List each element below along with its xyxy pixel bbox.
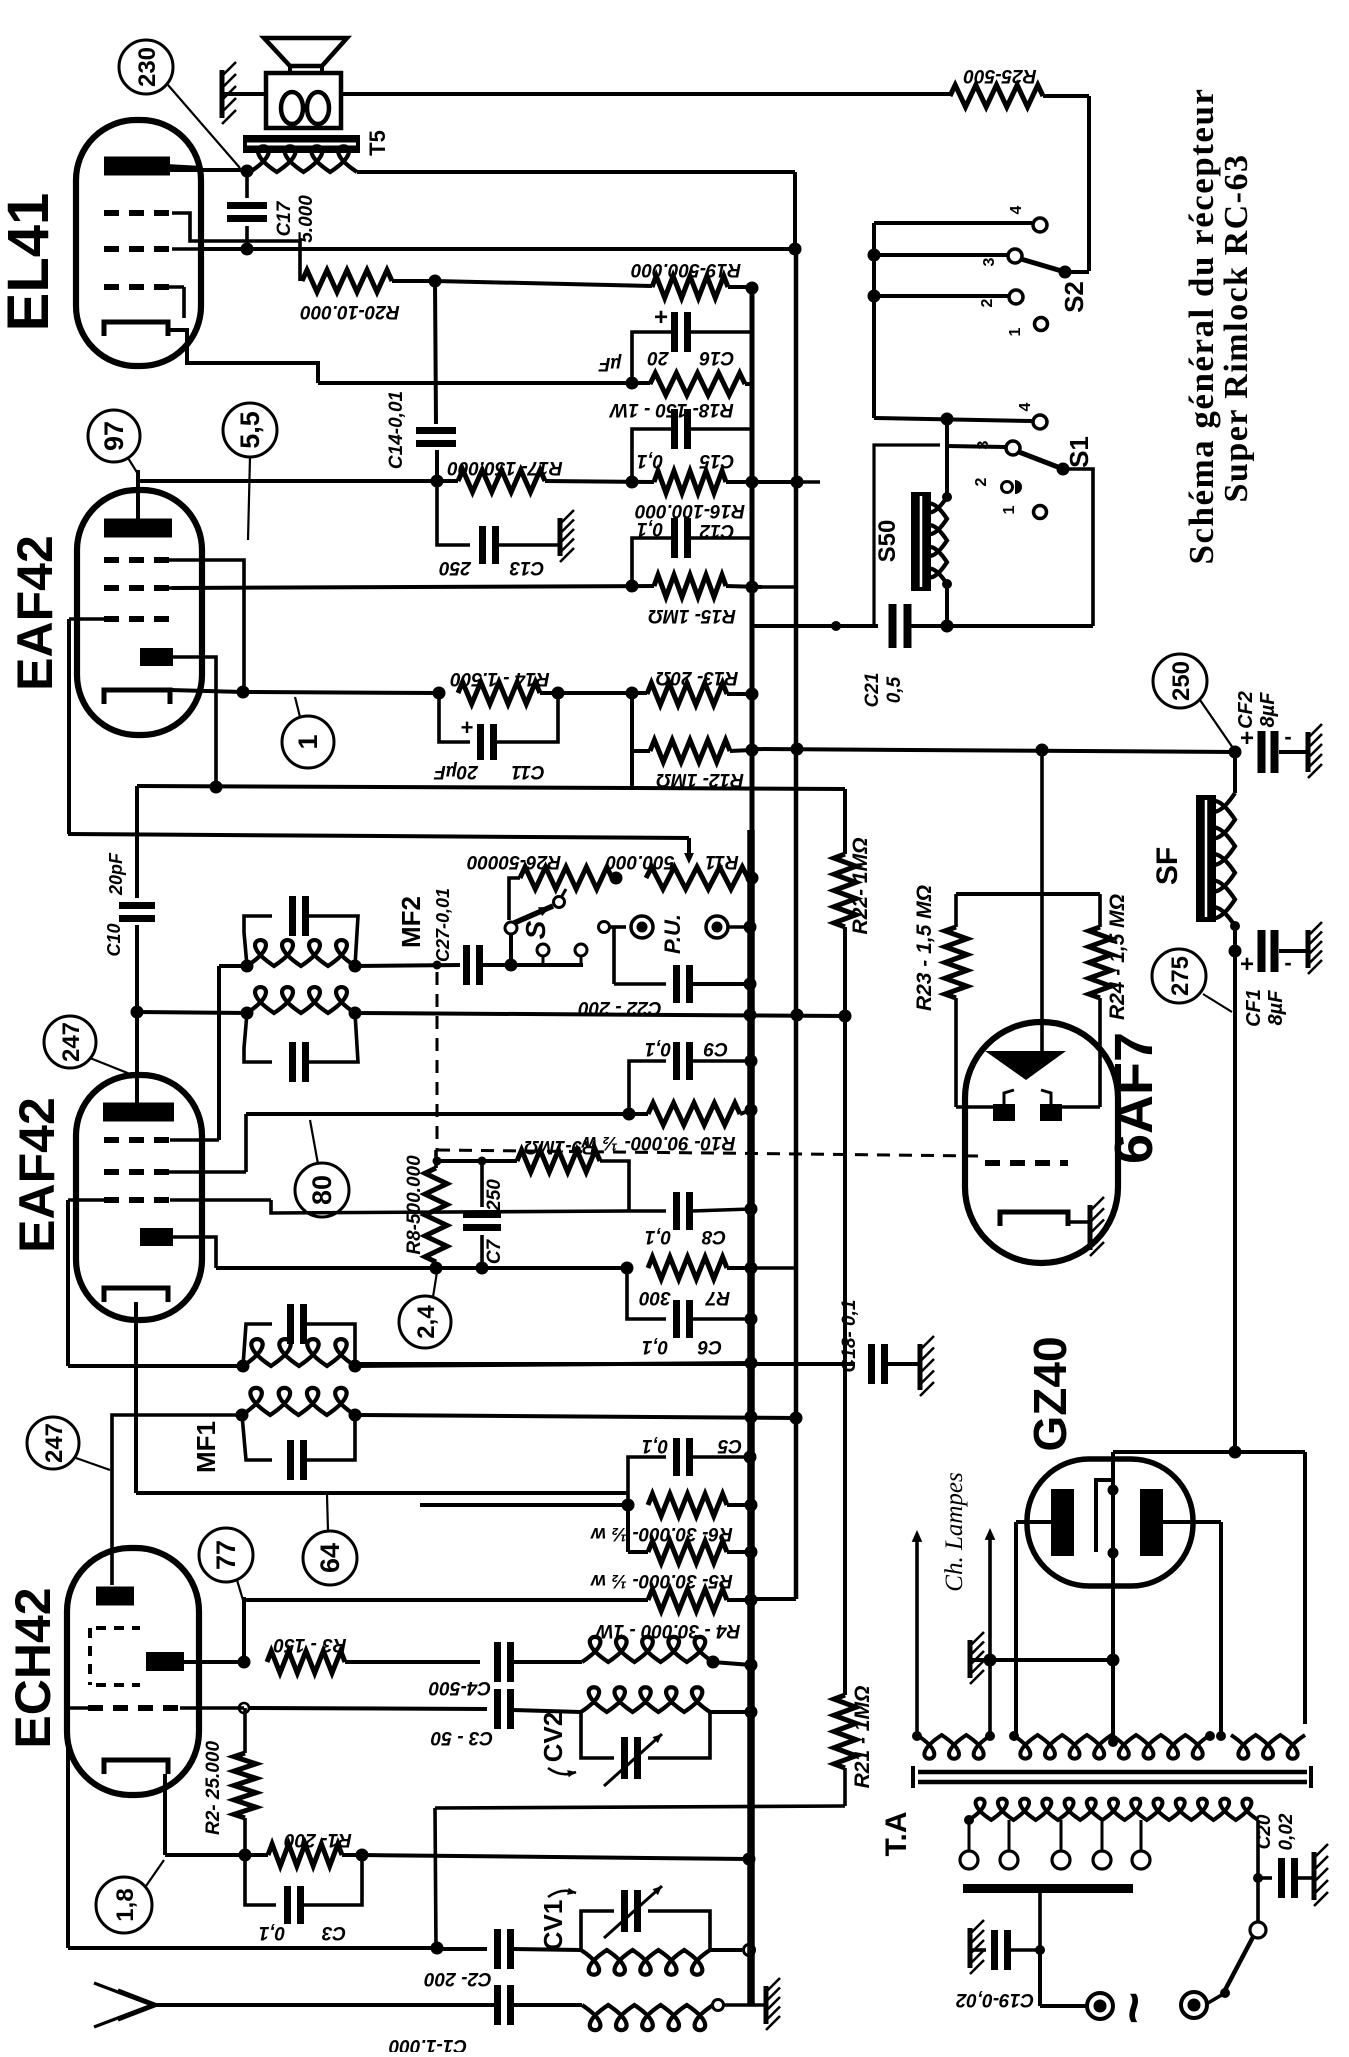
svg-text:6AF7: 6AF7: [1104, 1032, 1164, 1164]
node S1 c4 tee: [941, 413, 954, 426]
node R6 left: [622, 1499, 635, 1512]
resistor R15-1M: [654, 575, 726, 597]
svg-text:EAF42: EAF42: [7, 535, 63, 691]
node diode join: [210, 781, 223, 794]
node row1014 railB: [791, 1009, 804, 1022]
wire S1 pivot leg: [1063, 469, 1093, 626]
node C9 rail: [745, 1055, 758, 1068]
contact stub 1: [537, 944, 549, 956]
CV2 tuning arrow: [548, 1768, 576, 1774]
wire primary right: [1256, 1820, 1260, 1878]
wire R26 left bend: [509, 878, 520, 920]
T.A secondary winding 3: [1231, 1735, 1305, 1759]
node C22 rail: [744, 978, 757, 991]
contact stub 2: [575, 944, 587, 956]
node C8 rail: [745, 1203, 758, 1216]
node R18 left: [626, 377, 639, 390]
capacitor C10 20pF: [119, 902, 155, 909]
tube EAF42-1 body: [77, 490, 202, 735]
circled 80: [295, 1163, 349, 1217]
EAF42-1 cathode: [104, 690, 170, 704]
svg-text:C14-0,01: C14-0,01: [386, 391, 407, 469]
coil SF: [1210, 793, 1236, 926]
capacitor C3b branch: [245, 1855, 276, 1905]
tube ECH42 body: [67, 1548, 199, 1795]
wire anode HT row: [1113, 1450, 1305, 1454]
wire S2 pivot: [1065, 270, 1089, 274]
resistor R24-1,5M: [1098, 894, 1102, 927]
svg-text:3: 3: [975, 440, 992, 449]
svg-text:8µF: 8µF: [1257, 692, 1279, 728]
node R2 bottom: [239, 1849, 252, 1862]
MF2 lower coil: [247, 987, 355, 1013]
primary taps: [968, 1820, 971, 1851]
circled 5,5: [223, 403, 277, 457]
antenna coil L1: [582, 2005, 713, 2030]
EAF42-2 cathode: [104, 1288, 168, 1302]
6AF7 deflector left: [956, 1105, 995, 1109]
wire row 1014: [137, 1012, 247, 1013]
svg-text:C5: C5: [717, 1435, 742, 1456]
ground C13: [558, 518, 563, 556]
resistor R8-500.000: [425, 1168, 447, 1262]
node CF1 junction: [1229, 945, 1242, 958]
EL41 grid3 dashes: [104, 284, 172, 290]
wire C1 to L1: [513, 2003, 582, 2007]
ground (speaker frame): [220, 70, 225, 118]
svg-text:MF1: MF1: [191, 1421, 221, 1473]
svg-text:CF2: CF2: [1235, 691, 1257, 729]
switch S contact A: [554, 897, 565, 908]
svg-text:300: 300: [639, 1287, 671, 1308]
wire R5 rail: [727, 1550, 751, 1554]
capacitor C27-0,01: [463, 945, 470, 985]
svg-text:Super Rimlock RC-63: Super Rimlock RC-63: [1218, 154, 1255, 503]
wire R6 rail: [727, 1503, 751, 1507]
node MF1 up-right: [349, 1360, 362, 1373]
node x436 C2row: [431, 1942, 444, 1955]
ECH42 triode box dashes: [88, 1628, 92, 1685]
svg-text:C17: C17: [274, 200, 295, 236]
GZ40 anode right: [1140, 1489, 1163, 1556]
MF2 upper tank: [244, 916, 272, 966]
resistor R3-150: [267, 1651, 345, 1673]
wire row 1161: [437, 1159, 517, 1163]
capacitor C4-500: [494, 1642, 501, 1682]
wire CV1 to rail: [710, 1948, 742, 1952]
wire C13 branch: [437, 481, 470, 545]
resistor R12-1M: [650, 740, 730, 762]
ground 6AF7: [1088, 1205, 1093, 1250]
svg-text:+: +: [461, 715, 474, 740]
svg-text:C4-500: C4-500: [428, 1677, 491, 1698]
svg-text:C13: C13: [509, 557, 544, 578]
capacitor C8 branch: [628, 1209, 666, 1213]
wire row 966 left: [219, 964, 247, 968]
svg-text:T5: T5: [365, 130, 390, 156]
wire R3 to C4: [345, 1660, 480, 1664]
wire SF to CF1: [1233, 926, 1237, 951]
wire S50 to C21 row: [945, 584, 949, 626]
wire C18 ground: [888, 1362, 918, 1366]
leader 1,8: [146, 1860, 164, 1886]
wire row 1505: [420, 1503, 628, 1507]
wire R17-R16 row: [545, 481, 654, 482]
svg-text:C2- 200: C2- 200: [424, 1968, 492, 1989]
wire pot wiper: [687, 838, 691, 858]
node row1014 x845: [839, 1010, 852, 1023]
svg-text:-: -: [1284, 950, 1291, 975]
svg-text:SF: SF: [1151, 847, 1184, 885]
resistor R5-30.000: [648, 1541, 727, 1563]
wire R1 to rail: [342, 1853, 362, 1857]
svg-text:C10: C10: [104, 923, 124, 956]
MF2 upper coil: [247, 940, 355, 966]
node row749 rail B: [791, 743, 804, 756]
circled 275: [1152, 949, 1206, 1003]
svg-text:R13- 20Ω: R13- 20Ω: [656, 667, 739, 688]
stub row1268 railB: [751, 1266, 794, 1270]
svg-text:R7: R7: [704, 1287, 730, 1308]
svg-text:R3 - 150: R3 - 150: [273, 1634, 346, 1655]
leader 64: [327, 1495, 328, 1531]
EAF42-1 anode: [104, 519, 172, 538]
wire C22 to rail: [692, 982, 750, 986]
capacitor C16 branch: [632, 332, 672, 383]
node R14 left: [433, 687, 446, 700]
svg-text:P.U.: P.U.: [660, 914, 685, 954]
node MF1 up-left: [237, 1360, 250, 1373]
CV1 variable cap: [621, 1890, 628, 1932]
circled 64: [303, 1531, 357, 1585]
6AF7 target triangle: [985, 1051, 1066, 1080]
svg-text:MF2: MF2: [396, 896, 426, 948]
node MF1 low-right: [349, 1409, 362, 1422]
leader 2,4: [433, 1272, 437, 1297]
rail A lower: [747, 830, 755, 2006]
ECH42 grid blob: [146, 1652, 184, 1671]
node fil bottom: [1108, 1548, 1119, 1559]
capacitor C22-200: [673, 965, 680, 1003]
S2 contact1: [1035, 318, 1048, 331]
EAF42-1 grid2 dashes: [104, 585, 172, 591]
resistor R6-30.000: [648, 1494, 727, 1516]
svg-text:C9: C9: [703, 1038, 728, 1059]
wire R18 row: [318, 381, 650, 385]
transformer T5 primary coil: [250, 146, 357, 172]
node R16 rail A: [746, 476, 759, 489]
svg-text:0,1: 0,1: [645, 1226, 671, 1247]
capacitor C2-200: [494, 1929, 501, 1969]
svg-text:GZ40: GZ40: [1024, 1336, 1076, 1451]
leader 247 no2: [76, 1458, 110, 1470]
antenna: [149, 2003, 497, 2007]
switch secteur: [1256, 1878, 1260, 1922]
wire R10 rail: [740, 1110, 751, 1114]
leader 97: [128, 458, 138, 474]
wire x244 up: [242, 1597, 246, 1662]
resistor R17-150.000: [458, 470, 545, 492]
T.A secondary winding 2: [1013, 1735, 1210, 1759]
EL41 cathode: [104, 322, 168, 336]
svg-text:T.A: T.A: [880, 1812, 913, 1857]
circled 230: [119, 40, 173, 94]
svg-text:97: 97: [99, 421, 129, 451]
wire S2 contact4: [874, 221, 1032, 225]
svg-text:3: 3: [981, 257, 998, 266]
wire R7 rail: [727, 1266, 751, 1270]
node S50 bottom: [942, 579, 952, 589]
wire HT right leg: [1303, 1452, 1307, 1724]
node C20 tee: [1253, 1873, 1263, 1883]
ECH42 anode: [96, 1587, 134, 1606]
svg-text:R19-500.000: R19-500.000: [631, 259, 741, 280]
svg-text:C6: C6: [697, 1336, 722, 1357]
resistor R22-1M: [834, 854, 856, 927]
wire row 1493 cathode2: [136, 1491, 628, 1495]
node L3 rail: [745, 1659, 758, 1672]
GZ40 anode left: [1051, 1489, 1074, 1556]
jack PU1: [599, 922, 610, 933]
wire EAF42-1 anode row: [138, 479, 458, 483]
wire g3 left down: [66, 1200, 70, 1366]
wire row 1114: [246, 1112, 648, 1116]
capacitor C20-0,02: [1258, 1876, 1272, 1880]
capacitor C5 branch: [628, 1457, 666, 1505]
pin circle g1: [239, 1703, 249, 1713]
node S2 c2: [868, 290, 881, 303]
dashed AVC horizontal: [437, 1150, 980, 1156]
svg-text:Ch. Lampes: Ch. Lampes: [941, 1472, 968, 1591]
stub rails y587: [752, 585, 797, 589]
EAF42-1 diode plate: [140, 648, 173, 666]
wire x137 down: [135, 786, 139, 898]
node L3 right: [707, 1656, 720, 1669]
wire C4 to osc coil: [513, 1660, 582, 1664]
svg-text:20: 20: [647, 347, 670, 368]
svg-text:R20-10.000: R20-10.000: [300, 301, 400, 322]
node R16 left: [626, 476, 639, 489]
svg-text:S: S: [520, 920, 551, 939]
EAF42-1 grid3 dashes: [104, 616, 172, 622]
T.A secondary winding 1: [917, 1735, 991, 1759]
heater arrow 2: [988, 1534, 992, 1733]
node R6 rail: [745, 1499, 758, 1512]
resistor R21-1M: [834, 1695, 856, 1768]
wire speaker ground lead: [222, 92, 266, 96]
wire MF2 to C27: [355, 965, 460, 966]
svg-text:C16: C16: [699, 347, 734, 368]
node C21 left: [831, 621, 841, 631]
node S2 c3: [868, 249, 881, 262]
node PU2 rail: [744, 921, 757, 934]
svg-text:C20: C20: [1254, 1814, 1275, 1849]
ground heater: [968, 1640, 973, 1678]
S2 lever: [1021, 259, 1065, 272]
capacitor C19-0,02: [972, 1948, 986, 1952]
svg-text:R16-100.000: R16-100.000: [635, 500, 745, 521]
svg-text:4: 4: [1008, 205, 1025, 214]
capacitor C17: [245, 171, 249, 198]
node R19 rail: [746, 282, 759, 295]
node C5 rail: [744, 1451, 757, 1464]
svg-text:CF1: CF1: [1243, 989, 1265, 1027]
node MF2 low-right: [349, 1007, 362, 1020]
node C19 junction: [1035, 1945, 1045, 1955]
node CF2 junction: [1229, 746, 1242, 759]
wire rail B bottom corner: [751, 1597, 796, 1601]
wire row 1950: [437, 1947, 487, 1951]
svg-text:R9-1MΩ: R9-1MΩ: [524, 1136, 596, 1157]
svg-text:64: 64: [315, 1543, 345, 1573]
resistor R11-500.000: [646, 867, 748, 889]
svg-text:0,1: 0,1: [637, 518, 663, 539]
mains plug left: [1087, 1993, 1113, 2019]
resistor R4-30.000: [648, 1589, 727, 1611]
wire shield to C19: [1038, 1893, 1042, 1950]
6AF7 deflector right: [1062, 1105, 1100, 1109]
capacitor C3-50: [494, 1689, 501, 1729]
SF core: [1196, 795, 1216, 922]
capacitor C7: [480, 1161, 484, 1207]
ground C20: [1312, 1852, 1317, 1900]
svg-text:R15- 1MΩ: R15- 1MΩ: [648, 605, 736, 626]
ground C19: [968, 1928, 973, 1968]
nodes secondary: [912, 1731, 922, 1741]
wire S1 contact3: [947, 446, 1005, 447]
node SF bottom: [1230, 921, 1240, 931]
node R26-R11: [610, 872, 623, 885]
node C27 tee: [433, 961, 442, 970]
svg-text:230: 230: [134, 47, 161, 87]
wire to S1 c4: [874, 418, 1032, 421]
wire S2 contact3: [874, 253, 1007, 257]
EL41 grid2 dashes: [104, 246, 172, 252]
wire MF1 lower right row: [355, 1415, 797, 1418]
svg-text:S50: S50: [874, 520, 901, 563]
svg-text:R26-50000: R26-50000: [467, 851, 561, 872]
svg-text:2: 2: [973, 477, 990, 486]
switch S contact B: [505, 922, 517, 934]
leader 247 no1: [90, 1058, 135, 1076]
wire row 1600: [244, 1598, 648, 1602]
wire C2 to CV1: [513, 1949, 581, 1950]
node row1418 railB: [790, 1412, 803, 1425]
MF1 lower coil: [242, 1388, 355, 1415]
capacitor C12 branch: [632, 538, 672, 585]
wire speaker to top bus: [341, 92, 950, 96]
svg-text:1: 1: [1001, 505, 1018, 514]
wire CF1 ground: [1279, 949, 1306, 953]
capacitor C9 branch: [629, 1061, 666, 1114]
wire T5 to rail corner: [357, 170, 795, 174]
svg-text:1: 1: [293, 734, 323, 749]
wire g1 row to C3: [249, 1708, 487, 1709]
svg-text:R25-500: R25-500: [963, 65, 1036, 86]
leader 275: [1203, 994, 1232, 1012]
wire ECH42 grid row: [184, 1660, 244, 1664]
svg-text:µF: µF: [597, 353, 622, 374]
capacitor C14-0,01: [416, 427, 456, 434]
MF1 upper tank: [243, 1324, 272, 1366]
svg-text:R21 - 1MΩ: R21 - 1MΩ: [851, 1686, 874, 1789]
CV2 variable cap: [621, 1737, 628, 1779]
stub rails y482: [752, 480, 820, 484]
EAF42-2 grid3 dashes: [104, 1197, 170, 1203]
wire fil down: [1111, 1585, 1115, 1735]
svg-text:R24 - 1,5 MΩ: R24 - 1,5 MΩ: [1106, 894, 1129, 1020]
resistor R7-300: [648, 1257, 727, 1279]
leader 1: [295, 697, 300, 717]
svg-text:250: 250: [484, 1179, 505, 1212]
wire S50 top: [945, 419, 949, 497]
svg-text:80: 80: [307, 1175, 337, 1205]
wire R19 to rail A: [728, 285, 752, 289]
svg-text:500.000: 500.000: [605, 851, 674, 872]
wire 6AF7 anode feed: [1040, 750, 1044, 1051]
wire cath row: [243, 692, 439, 693]
node grid junction: [238, 1656, 251, 1669]
wire R20 to R19: [392, 279, 435, 283]
resistor R13-20: [647, 683, 727, 705]
node C21-S50: [941, 620, 954, 633]
node row1014 railA: [744, 1009, 757, 1022]
svg-text:C21: C21: [862, 673, 883, 708]
svg-text:275: 275: [1167, 956, 1194, 996]
wire x244 R4: [242, 1597, 246, 1600]
capacitor CF1: [1258, 930, 1266, 972]
svg-text:20µF: 20µF: [433, 761, 479, 782]
node R7 rail: [745, 1262, 758, 1275]
node R14 right: [552, 687, 565, 700]
S1 contact1: [1034, 506, 1047, 519]
node R12 rail A: [746, 744, 759, 757]
svg-text:0,1: 0,1: [259, 1922, 285, 1943]
svg-text:C11: C11: [511, 761, 544, 782]
node C9 tee: [623, 1108, 636, 1121]
node MF1 low-left: [236, 1409, 249, 1422]
MF2 lower tank: [244, 1013, 272, 1062]
wire R4 rail: [727, 1598, 751, 1602]
svg-text:R23 - 1,5 MΩ: R23 - 1,5 MΩ: [913, 885, 936, 1011]
S1 lever: [1019, 452, 1063, 469]
svg-text:0,02: 0,02: [1276, 1813, 1297, 1850]
svg-text:CV1: CV1: [538, 1900, 568, 1951]
capacitor C18-0,1: [868, 1344, 875, 1384]
svg-text:C8: C8: [701, 1226, 726, 1247]
svg-text:5,5: 5,5: [235, 411, 265, 449]
wire SF top: [1233, 752, 1237, 793]
svg-text:R5- 30.000- ½ w: R5- 30.000- ½ w: [590, 1570, 733, 1591]
capacitor C13: [479, 526, 486, 564]
wire CF2 ground: [1279, 750, 1306, 754]
svg-text:R1- 200: R1- 200: [284, 1829, 352, 1850]
wire GZ40 anodeL: [1016, 1520, 1051, 1524]
resistor R2-25.000: [243, 1708, 247, 1753]
capacitor C15 branch: [632, 429, 672, 482]
svg-text:1,8: 1,8: [112, 1888, 139, 1921]
svg-text:8µF: 8µF: [1265, 990, 1287, 1026]
CV2 tank box: [581, 1712, 614, 1758]
svg-text:C19-0,02: C19-0,02: [955, 1989, 1034, 2010]
wire row 1808: [435, 1806, 845, 1808]
circled 250: [1153, 654, 1207, 708]
node row1855 rail: [743, 1853, 756, 1866]
svg-text:247: 247: [58, 1022, 85, 1062]
resistor R14-1.500: [458, 682, 540, 704]
node R1 right: [356, 1849, 369, 1862]
6AF7 grid dashes: [985, 1160, 1068, 1166]
